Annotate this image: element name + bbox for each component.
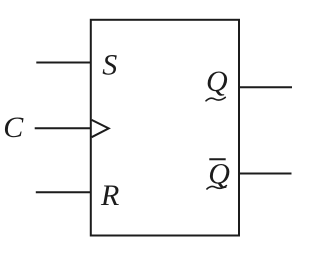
wire: output Q [239,86,292,88]
svg-text:C: C [3,111,24,144]
wire: input S [36,62,91,64]
Q swash tail [206,97,225,100]
wire: input R [36,191,91,193]
wire: output Q-bar [239,173,292,175]
svg-text:S: S [102,48,117,81]
wire: input C (clock) [35,127,91,129]
Q-bar swash tail [207,186,227,189]
svg-text:R: R [100,179,119,212]
svg-text:Q: Q [206,65,228,98]
flip-flop body U1 [91,20,239,236]
clock edge-trigger triangle [92,120,109,137]
overline of Q-bar [209,158,225,160]
